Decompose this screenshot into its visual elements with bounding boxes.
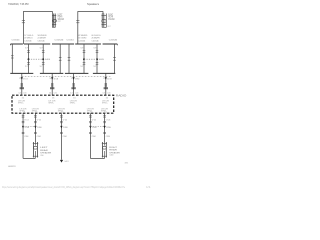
svg-text:14: 14 (49, 93, 51, 95)
svg-text:23 WH: 23 WH (25, 127, 30, 129)
in-line connector x35.4 y132 (34, 132, 37, 133)
svg-text:23 WH: 23 WH (92, 127, 97, 129)
svg-text:C440: C440 (109, 155, 113, 157)
connector line y44 segment 1 (11, 44, 23, 45)
diagram number bottom-left (8, 166, 16, 168)
radio module dashed box (12, 95, 114, 113)
svg-text:C240: C240 (107, 93, 110, 95)
svg-text:C240: C240 (54, 93, 57, 95)
pin number at radio box entry x73.6 (70, 93, 78, 95)
svg-text:S405: S405 (99, 59, 105, 61)
svg-text:RADIO: RADIO (116, 95, 127, 98)
in-line connector on leg x105.8 (104, 84, 108, 89)
splice S405 (99, 59, 105, 61)
svg-text:REAR: REAR (40, 149, 48, 152)
radio pin label entry 2 (48, 97, 56, 104)
in-line connector below box x61.4 (60, 116, 63, 117)
connector line y44 segment 4 (75, 43, 101, 45)
svg-text:C4154b: C4154b (109, 39, 118, 41)
svg-text:57 LG: 57 LG (24, 119, 29, 121)
speaker P2 name label (3 lines) (107, 14, 114, 28)
wire label below box x90.4 (92, 119, 97, 121)
wire leg x21.8 (pair 1 output) (21, 73, 23, 95)
wire leg x52.2 (pair 2 output) (51, 73, 53, 95)
svg-text:16: 16 (106, 97, 108, 99)
svg-text:C3154b: C3154b (12, 39, 21, 41)
speaker P4 right rear door speaker - connector face (102, 142, 107, 158)
wire column x12.3 (left end) (11, 44, 14, 73)
svg-text:hitps;//www.wiring.diagrams.po: hitps;//www.wiring.diagrams.portal/print… (2, 185, 125, 189)
speaker P3 left rear door speaker - connector face (33, 142, 38, 158)
radio box reference label (116, 95, 127, 98)
page header date/time text (8, 2, 29, 6)
svg-text:7/30/2019, 7:06 PM: 7/30/2019, 7:06 PM (8, 2, 29, 6)
pin number at radio box entry x52.2 (49, 93, 57, 95)
wire column x28.5 with ticks and splice dot (27, 44, 30, 73)
wire label at arrow x35.4 (37, 127, 42, 129)
svg-text:C334: C334 (92, 136, 97, 138)
wire column x69.0 (68, 44, 71, 73)
splice dashed link below box (left pair) (23, 126, 35, 128)
svg-text:46823: 46823 (8, 166, 16, 168)
svg-text:C3154: C3154 (66, 39, 74, 41)
svg-text:14: 14 (102, 93, 104, 95)
svg-text:C3154b: C3154b (38, 40, 46, 42)
wire column x114.5 (113, 44, 116, 73)
wire label x35.4 y135 (37, 136, 42, 138)
wire label x104.6 y135 (106, 136, 111, 138)
svg-text:C334: C334 (106, 136, 111, 138)
wire label block col x28.5 (3 lines) (24, 35, 33, 43)
ground G401 label (64, 161, 69, 163)
svg-text:Speakers: Speakers (87, 2, 100, 6)
svg-text:14: 14 (70, 93, 72, 95)
svg-text:C240: C240 (23, 93, 26, 95)
dashed option divider line y76.6 (22, 76, 112, 78)
in-line connector on leg x52.2 (50, 84, 54, 89)
svg-text:16: 16 (52, 97, 54, 99)
in-line connector below box x104.6 (103, 116, 106, 117)
wire label below box x23.05 (24, 119, 29, 121)
svg-text:57: 57 (40, 66, 43, 68)
wire gauge label beside column x97.0 (93, 48, 96, 68)
junction bar 1 (cols 12.3 + 28.5) (10, 72, 33, 74)
svg-text:C3154b: C3154b (55, 39, 65, 41)
in-line connector x104.6 y121 (103, 121, 106, 122)
wire exit x104.6 (to right speaker +) (103, 113, 105, 142)
wire - top horizontal to right rear speaker (78, 11, 103, 14)
wire - top horizontal to left rear speaker (23, 11, 52, 13)
in-line connector on leg x21.8 (20, 84, 24, 89)
svg-text:58 LB: 58 LB (54, 78, 59, 80)
svg-text:C334: C334 (63, 136, 68, 138)
in-line connector on leg x73.6 (71, 84, 75, 89)
svg-text:4B92: 4B92 (125, 163, 129, 165)
wire leg x105.8 (pair 4 output) (105, 73, 107, 95)
svg-text:57: 57 (25, 66, 28, 68)
in-line connector x61.4 y132 (60, 132, 63, 133)
junction bar 2 (cols 43.2 + 60.2) (40, 72, 63, 74)
radio pin label entry 3 (70, 97, 78, 104)
wire column x60.2 (59, 44, 62, 73)
wire label x61.4 y135 (63, 136, 68, 138)
svg-text:57: 57 (25, 48, 28, 50)
wire exit x90.4 (to right speaker -, wraps below) (89, 113, 91, 158)
svg-text:S404: S404 (45, 59, 51, 61)
svg-text:SPKR+: SPKR+ (18, 103, 24, 105)
in-line connector C312 on left drop (22, 20, 25, 23)
svg-text:24 DB/WH: 24 DB/WH (38, 37, 47, 39)
svg-text:26 BN/PK: 26 BN/PK (92, 37, 101, 39)
twisted-pair dashed link S405 (84, 58, 97, 60)
wire leg x73.6 (pair 3 output) (72, 73, 74, 95)
svg-text:SPEAKER: SPEAKER (108, 18, 114, 21)
wire label block col x12 (1 line) (12, 39, 21, 41)
wire label at arrow x61.4 (63, 127, 68, 129)
svg-text:16: 16 (73, 97, 75, 99)
svg-text:14: 14 (18, 93, 20, 95)
svg-text:9: 9 (103, 78, 105, 80)
speaker P1 name label (3 lines) (58, 14, 64, 23)
wire label at leg x21.8 (19, 78, 28, 80)
wire exit x35.4 (to left speaker +) (34, 113, 36, 142)
wire label at arrow x90.4 (92, 127, 97, 129)
radio pin label entry 4 (102, 97, 110, 104)
wire gauge label beside column x84.0 (80, 48, 83, 68)
svg-text:57: 57 (93, 48, 96, 50)
svg-text:1/1: 1/1 (146, 185, 151, 189)
svg-text:23 WH: 23 WH (106, 127, 111, 129)
in-line connector below box x23.05 (22, 116, 25, 117)
splice dashed link below box (right pair) (90, 126, 104, 128)
wire exit x23.05 (to left speaker -, wraps below) (22, 113, 24, 158)
wire label at leg x73.6 (71, 78, 80, 80)
wire label at arrow x23.05 (25, 127, 30, 129)
diagram number bottom-right area (125, 163, 129, 165)
in-line connector below box x35.4 (34, 116, 37, 117)
in-line connector x35.4 y121 (34, 121, 37, 122)
radio pin label entry 1 (18, 97, 26, 104)
wire label x23.05 y135 (24, 136, 29, 138)
wire exit x61.4 (to ground G401) (60, 113, 62, 160)
svg-text:SPKR+: SPKR+ (48, 103, 54, 105)
wire gauge label beside column x28.5 (25, 48, 28, 68)
svg-text:C334: C334 (37, 136, 42, 138)
wire label below box x35.4 (37, 119, 42, 121)
svg-text:16: 16 (22, 97, 24, 99)
svg-text:57 LG: 57 LG (23, 78, 28, 80)
speaker P2 right rear door - connector face (101, 14, 106, 28)
wire label block col x97 (3 lines) (92, 35, 101, 43)
svg-text:C4154b: C4154b (92, 40, 100, 42)
svg-text:57 LG: 57 LG (92, 119, 97, 121)
speaker P4 name label (3 lines) (109, 147, 120, 157)
page footer url text (2, 185, 125, 189)
svg-text:60 OG: 60 OG (107, 78, 112, 80)
svg-text:C334: C334 (24, 136, 29, 138)
wire label block col x43 (3 lines) (38, 35, 47, 43)
wire label at leg x52.2 (49, 78, 58, 80)
wire label col x60 (1 line) (55, 39, 65, 41)
pin number at radio box entry x105.8 (102, 93, 110, 95)
wire label at leg x105.8 (103, 78, 112, 80)
svg-text:57: 57 (80, 48, 83, 50)
wire column x84.0 with ticks and splice dot (83, 44, 86, 73)
wire wrap-around to right speaker bottom (90, 157, 104, 158)
speaker P3 name label (3 lines) (40, 147, 51, 157)
wire wrap-around to left speaker bottom (23, 157, 35, 158)
connector line y44 segment 3 (52, 43, 74, 45)
junction bar 3 (cols 69 + 84) (65, 72, 89, 74)
svg-text:57 LG: 57 LG (63, 119, 68, 121)
page footer page number (146, 185, 151, 189)
pin number at radio box entry x21.8 (18, 93, 26, 95)
wire - left drop x23.4 from speaker to connector line (22, 11, 24, 44)
svg-text:57: 57 (40, 48, 43, 50)
ground G401 symbol (60, 160, 63, 162)
in-line connector x104.6 y132 (103, 132, 106, 133)
svg-text:C3154b: C3154b (24, 40, 32, 42)
svg-text:REAR: REAR (109, 149, 117, 152)
wire column x97.0 with ticks and splice dot (96, 44, 99, 73)
svg-text:25 OG/RD: 25 OG/RD (78, 37, 87, 39)
in-line connector x23.05 y121 (22, 121, 25, 122)
page header title text (87, 2, 100, 6)
svg-text:57: 57 (80, 66, 83, 68)
wire gauge label beside column x43.2 (40, 48, 43, 68)
wire - right drop x77.8 from speaker to connector line (77, 11, 79, 44)
svg-text:9: 9 (71, 78, 73, 80)
in-line connector x90.4 y121 (89, 121, 92, 122)
wire label below box x61.4 (63, 119, 68, 121)
svg-text:23 WH: 23 WH (37, 127, 42, 129)
wire label x90.4 y135 (92, 136, 97, 138)
junction bar 4 (cols 97 + 114.5) (93, 72, 115, 74)
wire label at arrow x104.6 (106, 127, 111, 129)
svg-text:23 WH: 23 WH (63, 127, 68, 129)
speaker P1 left rear door - connector face (52, 12, 56, 28)
svg-text:G401: G401 (64, 161, 69, 163)
svg-text:C417: C417 (107, 26, 111, 28)
in-line connector below box x90.4 (89, 116, 92, 117)
svg-text:C240: C240 (75, 93, 78, 95)
radio pin label exit 2 (32, 108, 40, 114)
svg-text:9: 9 (49, 78, 51, 80)
svg-text:57 LG: 57 LG (37, 119, 42, 121)
in-line connector C412 on right drop (76, 20, 79, 23)
twisted-pair dashed link S404 (29, 58, 44, 60)
svg-text:57: 57 (93, 66, 96, 68)
svg-text:C4154b: C4154b (78, 40, 86, 42)
in-line connector x61.4 y121 (60, 121, 63, 122)
wire label below box x104.6 (106, 119, 111, 121)
radio pin label exit 1 (19, 108, 27, 114)
wire column x43.2 with ticks and splice dot (42, 44, 45, 73)
wire label block col x84 (3 lines) (78, 35, 88, 43)
splice S404 (45, 59, 51, 61)
svg-text:SPKR+: SPKR+ (102, 103, 108, 105)
svg-text:23 WH/LG: 23 WH/LG (24, 37, 32, 39)
connector line y44 segment 5 (103, 44, 118, 45)
wire label col x114.5 (1 line) (109, 39, 118, 41)
wire label col x69 (1 line) (66, 39, 74, 41)
svg-text:SPKR+: SPKR+ (70, 103, 76, 105)
svg-text:C317: C317 (58, 21, 62, 23)
in-line connector x23.05 y132 (22, 132, 25, 133)
svg-text:C340: C340 (40, 155, 43, 157)
svg-text:9: 9 (19, 78, 21, 80)
radio pin label exit 4 (87, 108, 95, 114)
connector line y44 segment 2 (24, 43, 50, 45)
in-line connector x90.4 y132 (89, 132, 92, 133)
svg-text:57 LG: 57 LG (106, 119, 111, 121)
radio pin label exit 3 (58, 108, 66, 114)
svg-text:59 RD: 59 RD (75, 78, 80, 80)
radio pin label exit 5 (101, 108, 109, 114)
